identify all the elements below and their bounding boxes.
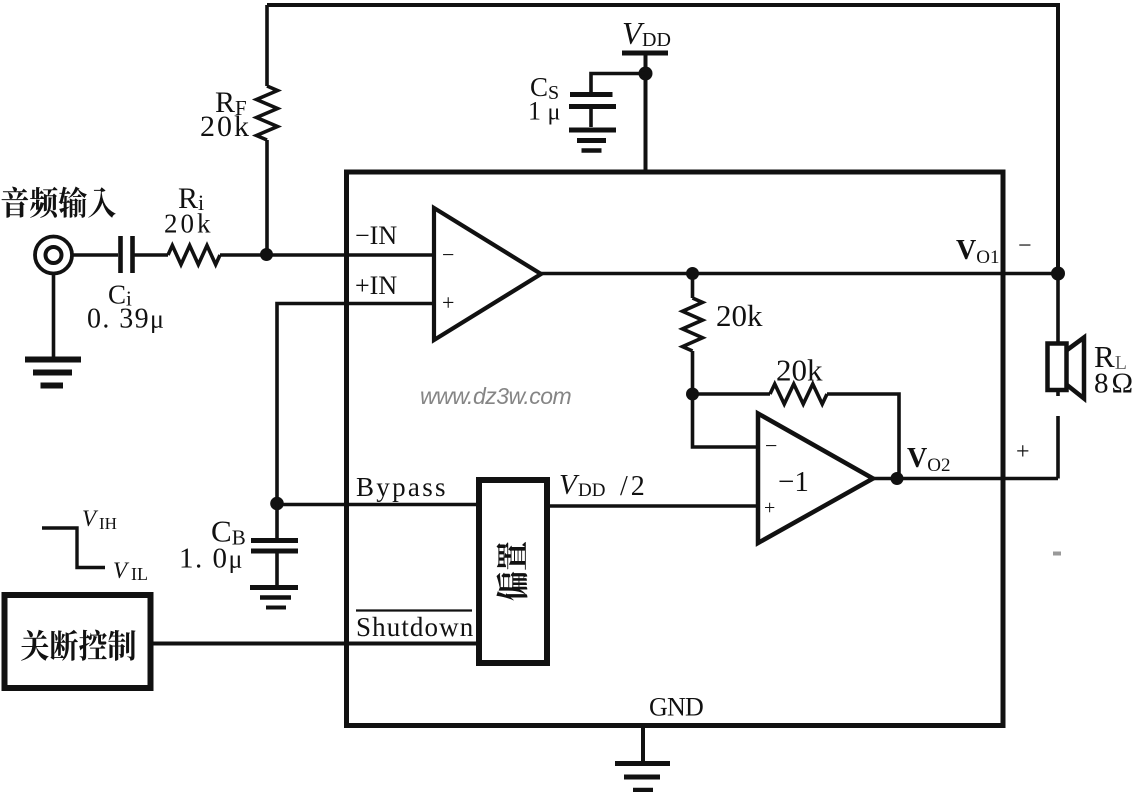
wire jack to Ci [72, 253, 118, 257]
node feedback junction dot [686, 388, 699, 401]
svg-text:DD: DD [642, 29, 671, 51]
svg-text:20k: 20k [716, 298, 763, 333]
svg-text:−: − [442, 242, 454, 267]
wire RF bottom lead to input node [265, 140, 269, 254]
svg-text:20k: 20k [200, 110, 251, 143]
resistor RF 20k (vertical zigzag) [257, 86, 278, 140]
svg-text:−1: −1 [778, 466, 809, 498]
svg-text:0. 39μ: 0. 39μ [87, 304, 165, 335]
IC body box [347, 172, 1004, 726]
svg-text:V: V [559, 469, 580, 501]
power VDD bar [622, 51, 668, 56]
wire U1 output VO1 [541, 272, 1058, 276]
wire Ci to Ri [135, 253, 169, 257]
wire CB to ground [275, 551, 279, 585]
wire +IN [277, 304, 433, 504]
wire VO1 node to speaker [1056, 274, 1060, 344]
svg-text:V: V [82, 506, 99, 531]
control box 关断控制 [5, 595, 151, 688]
node input junction dot [260, 248, 273, 261]
svg-text:−IN: −IN [355, 221, 397, 250]
speaker RL horn [1067, 338, 1084, 399]
capacitor CB plates [251, 538, 298, 543]
wire U2 output VO2 [873, 477, 1058, 481]
svg-text:8Ω: 8Ω [1094, 368, 1132, 400]
label Shutdown with overline [356, 609, 472, 611]
ground GND bars [615, 761, 670, 766]
wire VDD to CS [591, 74, 646, 93]
speaker RL box [1048, 344, 1067, 391]
svg-text:+: + [1016, 439, 1030, 465]
ground GND lead [641, 728, 645, 761]
svg-text:GND: GND [649, 693, 703, 722]
text 偏置 (rotated) [496, 542, 527, 601]
capacitor CB lead [275, 503, 279, 538]
wire RF top lead [265, 5, 269, 86]
wire 20k vertical top lead [691, 274, 695, 299]
svg-text:+: + [442, 290, 454, 315]
svg-text:VO1: VO1 [956, 235, 999, 268]
node VDD junction dot [639, 67, 653, 81]
wire inverting input U2 [693, 394, 758, 447]
connector inner circle [46, 247, 62, 263]
ground jack: lead [52, 273, 56, 357]
connector audio input jack outer circle [35, 237, 72, 274]
resistor 20k feedback (horizontal) [770, 384, 827, 404]
node VO1 right junction dot [1051, 267, 1065, 281]
ground jack bars [25, 357, 81, 363]
ground CS bars [569, 128, 616, 133]
wire to 20k feedback resistor [693, 392, 771, 396]
wire speaker to VO2 (with scan gap) [1056, 390, 1060, 479]
svg-text:VO2: VO2 [907, 443, 950, 476]
svg-text:DD: DD [578, 480, 605, 501]
svg-text:1. 0μ: 1. 0μ [179, 543, 244, 575]
resistor Ri 20k (horizontal zigzag) [168, 246, 220, 265]
svg-text:1 μ: 1 μ [528, 97, 560, 126]
wire shutdown control to bias box [152, 642, 479, 646]
waveform VIH/VIL step [42, 528, 105, 568]
text 音频输入 [2, 187, 116, 218]
wire 20k vertical bottom lead [691, 351, 695, 394]
svg-text:V: V [113, 558, 130, 583]
artifact speck [1053, 552, 1061, 556]
svg-text:+: + [764, 497, 775, 519]
svg-text:−: − [765, 433, 777, 458]
svg-text:Shutdown: Shutdown [356, 612, 474, 642]
capacitor Ci plates [121, 236, 133, 273]
wire Bypass [277, 503, 477, 507]
node VO2 junction dot [891, 472, 904, 485]
svg-text:IH: IH [99, 514, 117, 533]
node VO1 20k tap dot [686, 267, 699, 280]
wire top feedback RF loop [267, 5, 1058, 274]
wire VDD/2 to U2 + input [550, 504, 758, 508]
wire 20k feedback to VO2 [827, 394, 899, 479]
resistor 20k vertical [683, 298, 703, 351]
svg-text:20k: 20k [776, 353, 823, 388]
svg-text:IL: IL [131, 564, 148, 584]
svg-text:Bypass: Bypass [356, 472, 448, 502]
wire CS to ground [589, 107, 593, 127]
wire VDD down to IC [644, 55, 648, 170]
svg-text:20k: 20k [164, 209, 214, 239]
text 关断控制 [21, 630, 135, 661]
wire Ri to -IN [220, 253, 433, 257]
svg-text:+IN: +IN [355, 271, 397, 300]
svg-text:−: − [1018, 233, 1032, 259]
node bypass junction dot [270, 497, 284, 511]
bias block 偏置 box [479, 480, 547, 663]
op-amp U1 triangle [434, 208, 541, 340]
op-amp U2 (-1) triangle [758, 414, 873, 544]
capacitor CS plates [570, 92, 613, 97]
ground CB bars [250, 585, 298, 590]
svg-text:www.dz3w.com: www.dz3w.com [420, 383, 572, 409]
svg-text:/2: /2 [620, 471, 648, 502]
